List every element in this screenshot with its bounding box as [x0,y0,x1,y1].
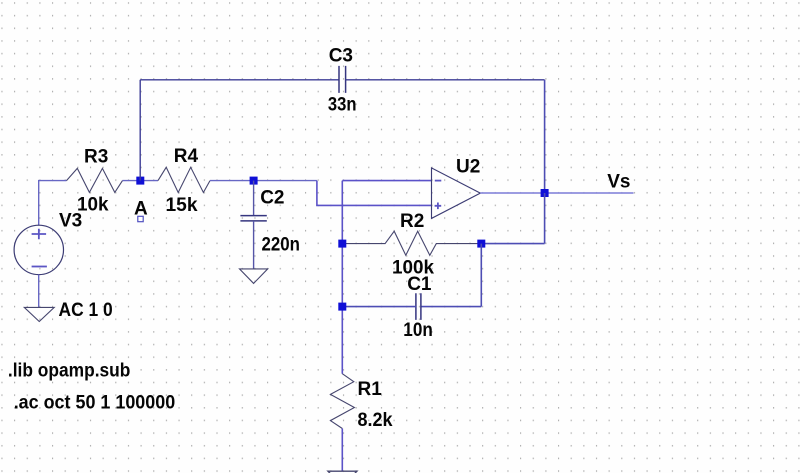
svg-text:15k: 15k [166,195,198,216]
svg-text:10n: 10n [403,320,433,341]
node A junction square [136,177,144,185]
node: R4/C2 junction square [250,177,258,185]
svg-text:AC 1 0: AC 1 0 [59,300,113,321]
wire: V3 bottom lead [38,275,40,308]
wire: step down to op-amp plus input [317,181,432,206]
node: C1 left junction square [338,303,346,311]
resistor R1 [330,374,354,429]
node: R2 right junction square [477,240,485,248]
wire: horizontal from x544 to R2 right node [481,243,544,245]
wire: feedback top horizontal right of C3 [346,79,545,81]
wire: feedback top horizontal left of C3 [140,79,339,81]
resistor R2 [346,231,478,255]
svg-text:R3: R3 [84,146,108,167]
node: output junction square [541,189,549,197]
wire: R4 to C2 node and onward [210,180,317,182]
V3 minus sign [32,266,47,268]
svg-text:33n: 33n [328,95,357,116]
wire: output node down to R2 level [544,193,546,244]
ground below V3 [24,307,54,321]
resistor R4 [158,167,210,192]
ground below C2 [240,269,268,284]
svg-text:R4: R4 [174,146,199,167]
wire: C1 right lead [421,306,481,308]
ground below R1 [328,471,357,473]
svg-text:.lib opamp.sub: .lib opamp.sub [8,360,130,381]
svg-text:U2: U2 [456,157,480,178]
svg-text:C3: C3 [329,45,353,66]
wire: R2 right node down to C1 level [480,244,482,307]
svg-text:V3: V3 [59,210,82,231]
wire: vertical feedback bus at x=342 [341,181,343,374]
voltage source V3 circle [14,225,63,274]
svg-text:C1: C1 [407,274,432,295]
svg-text:220n: 220n [262,234,300,255]
svg-text:C2: C2 [260,188,284,209]
capacitor C1 plates [416,293,421,320]
V3 plus sign [32,229,46,240]
op-amp U2 triangle [432,168,481,219]
wire: op-amp minus input [342,180,431,182]
wire: V3 top lead vertical [38,181,40,226]
capacitor C2 plates [240,216,266,221]
node A flag square [138,216,143,221]
wire: feedback vertical at node A [139,80,141,181]
svg-text:R1: R1 [358,379,383,400]
wire: between R3 and node A [123,180,159,182]
op-amp minus sign [435,180,442,182]
svg-text:Vs: Vs [607,172,630,193]
capacitor C2 bottom lead [253,221,255,269]
capacitor C3 [339,66,346,93]
op-amp plus sign [435,203,442,210]
wire: main horizontal left segment [38,180,67,182]
wire: C1 left lead [342,306,416,308]
wire: R1 bottom lead [341,429,343,472]
svg-text:8.2k: 8.2k [358,410,393,431]
node: R2 left junction square [338,240,346,248]
svg-text:.ac oct 50 1 100000: .ac oct 50 1 100000 [14,392,176,413]
resistor R3 [67,168,123,192]
svg-text:R2: R2 [400,211,424,232]
wire: feedback right vertical down to output node [544,80,546,193]
capacitor C2 top lead [253,181,255,216]
wire: op-amp output [480,192,633,194]
